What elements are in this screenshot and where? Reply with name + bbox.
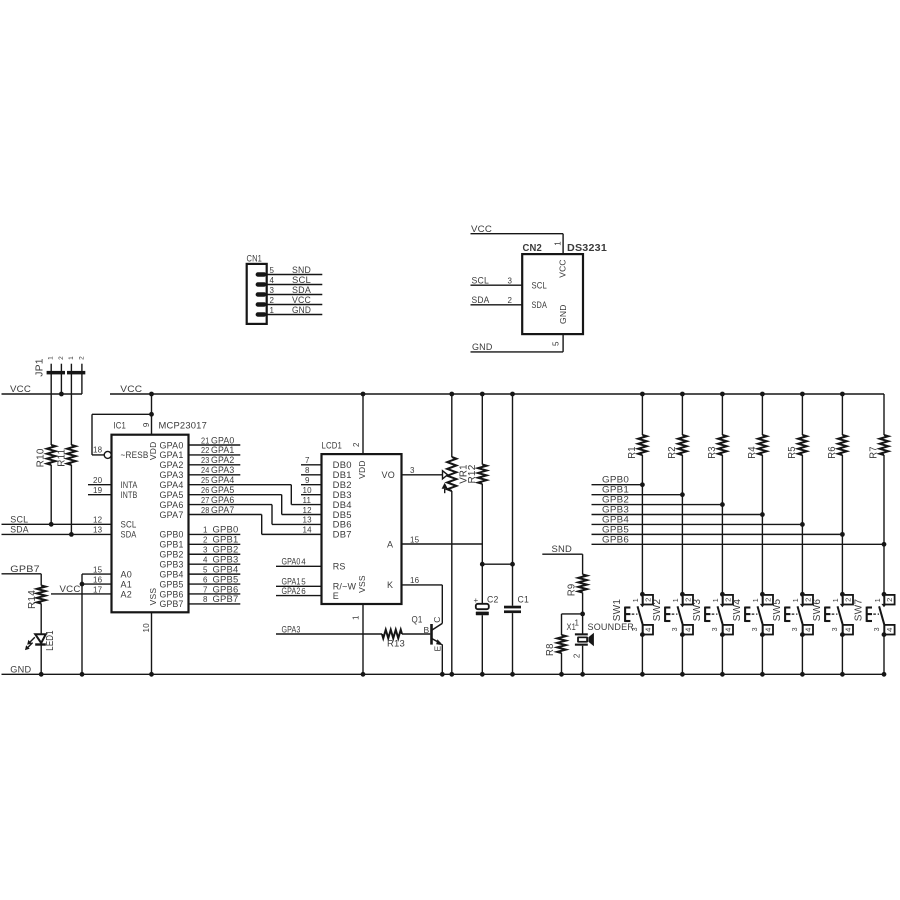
svg-text:23: 23 [201,456,210,465]
svg-text:24: 24 [201,466,210,475]
svg-text:15: 15 [410,535,420,544]
svg-text:2: 2 [352,442,361,447]
svg-text:VCC: VCC [471,224,492,235]
svg-text:2: 2 [885,598,894,602]
svg-text:2: 2 [78,356,85,360]
svg-text:A1: A1 [121,579,132,589]
svg-text:3: 3 [203,546,208,555]
svg-text:4: 4 [885,628,894,632]
svg-text:1: 1 [713,598,720,602]
svg-text:VDD: VDD [357,460,367,479]
svg-text:GPB7: GPB7 [160,599,184,609]
svg-text:6: 6 [301,587,306,596]
svg-text:GND: GND [472,342,493,353]
svg-text:1: 1 [673,598,680,602]
svg-text:VO: VO [382,470,395,480]
svg-text:3: 3 [672,627,679,631]
svg-text:C: C [432,616,442,622]
svg-text:4: 4 [763,628,772,632]
svg-text:R14: R14 [27,590,38,609]
svg-text:5: 5 [301,578,306,587]
svg-text:16: 16 [93,575,103,584]
svg-text:IC1: IC1 [114,421,127,432]
svg-text:1: 1 [352,615,361,620]
svg-text:C1: C1 [518,595,530,605]
svg-text:11: 11 [303,496,312,505]
svg-text:VCC: VCC [10,384,31,395]
svg-text:R9: R9 [566,583,577,596]
svg-text:GND: GND [292,305,311,316]
svg-text:8: 8 [305,466,310,475]
svg-text:VCC: VCC [60,584,81,595]
svg-text:SW3: SW3 [692,599,703,622]
svg-text:SDA: SDA [121,530,137,540]
svg-text:A2: A2 [121,589,132,599]
svg-text:2: 2 [843,598,852,602]
svg-text:VCC: VCC [120,384,142,395]
svg-text:RS: RS [333,562,346,572]
svg-text:R7: R7 [869,446,880,459]
svg-text:27: 27 [201,496,210,505]
svg-text:2: 2 [803,598,812,602]
svg-text:4: 4 [203,555,208,564]
svg-text:1: 1 [68,356,75,360]
svg-text:GPA0: GPA0 [282,557,301,568]
svg-text:GPB6: GPB6 [602,534,629,545]
svg-text:GPB7: GPB7 [10,564,40,575]
svg-text:C2: C2 [487,595,499,605]
svg-text:5: 5 [552,341,561,346]
svg-text:DB7: DB7 [333,530,352,540]
svg-text:2: 2 [508,296,513,305]
svg-text:15: 15 [93,565,103,574]
svg-text:INTB: INTB [121,490,138,500]
svg-text:R2: R2 [667,446,678,459]
svg-text:9: 9 [305,476,310,485]
svg-text:GND: GND [558,304,568,324]
svg-text:18: 18 [93,446,103,455]
svg-text:INTA: INTA [121,480,138,490]
svg-text:VDD: VDD [148,442,158,461]
svg-text:GPA3: GPA3 [282,624,301,635]
svg-text:3: 3 [792,627,799,631]
svg-text:GPB4: GPB4 [160,569,184,579]
svg-text:3: 3 [874,627,881,631]
svg-text:SCL: SCL [532,280,548,290]
svg-text:Q1: Q1 [412,614,423,624]
svg-text:DB2: DB2 [333,480,352,490]
svg-text:R6: R6 [827,446,838,459]
svg-text:10: 10 [142,623,151,633]
svg-text:DS3231: DS3231 [567,243,607,254]
svg-text:GPA3: GPA3 [160,470,184,480]
svg-text:VSS: VSS [148,588,158,606]
svg-text:GPA5: GPA5 [160,490,184,500]
svg-text:13: 13 [93,526,103,535]
svg-text:R5: R5 [787,446,798,459]
svg-text:CN2: CN2 [523,243,543,254]
svg-text:GPA6: GPA6 [160,500,184,510]
svg-text:LCD1: LCD1 [322,441,343,452]
svg-text:SOUNDER: SOUNDER [588,622,635,632]
svg-text:16: 16 [410,576,420,585]
svg-text:3: 3 [270,286,275,295]
svg-text:1: 1 [553,241,562,246]
svg-text:7: 7 [305,456,310,465]
svg-text:R13: R13 [387,638,405,648]
svg-text:DB5: DB5 [333,510,352,520]
svg-text:4: 4 [683,628,692,632]
svg-text:E: E [333,591,339,601]
svg-text:3: 3 [410,466,415,475]
svg-text:GPA1: GPA1 [160,450,184,460]
svg-text:A0: A0 [121,569,132,579]
svg-text:GPA0: GPA0 [160,440,184,450]
svg-text:1: 1 [833,598,840,602]
svg-text:1: 1 [203,526,208,535]
svg-text:5: 5 [203,565,208,574]
svg-text:14: 14 [303,526,313,535]
svg-text:GPA7: GPA7 [211,505,235,516]
svg-text:8: 8 [203,595,208,604]
svg-text:E: E [432,645,442,651]
svg-text:26: 26 [201,486,210,495]
svg-text:4: 4 [643,628,652,632]
svg-text:12: 12 [303,506,313,515]
svg-text:SW7: SW7 [854,599,865,622]
svg-text:GPA7: GPA7 [160,510,184,520]
svg-text:5: 5 [270,266,275,275]
svg-text:22: 22 [201,446,210,455]
svg-text:1: 1 [575,618,580,627]
svg-text:R1: R1 [627,446,638,459]
svg-text:SCL: SCL [121,520,137,530]
svg-text:SDA: SDA [10,524,29,535]
svg-text:SW2: SW2 [652,599,663,622]
svg-text:1: 1 [875,598,882,602]
svg-text:13: 13 [303,516,313,525]
svg-text:19: 19 [93,486,103,495]
svg-text:2: 2 [573,653,582,658]
svg-text:GPA2: GPA2 [282,586,301,597]
svg-text:3: 3 [712,627,719,631]
svg-text:4: 4 [723,628,732,632]
svg-text:6: 6 [203,575,208,584]
svg-text:4: 4 [301,558,306,567]
svg-text:GPA4: GPA4 [160,480,184,490]
svg-text:SCL: SCL [472,275,490,286]
svg-text:2: 2 [683,598,692,602]
svg-text:DB0: DB0 [333,460,352,470]
svg-text:2: 2 [270,296,275,305]
svg-text:R12: R12 [467,464,478,483]
svg-text:4: 4 [843,628,852,632]
svg-text:10: 10 [303,486,313,495]
svg-text:4: 4 [803,628,812,632]
svg-text:12: 12 [93,516,103,525]
svg-text:20: 20 [93,476,103,485]
svg-text:2: 2 [643,598,652,602]
svg-text:GPB1: GPB1 [160,540,184,550]
svg-text:LED1: LED1 [45,630,56,651]
svg-text:DB1: DB1 [333,470,352,480]
svg-text:R10: R10 [36,448,47,467]
svg-text:SDA: SDA [472,295,490,306]
svg-text:CN1: CN1 [247,253,263,264]
svg-text:SW6: SW6 [812,599,823,622]
svg-text:3: 3 [508,276,513,285]
svg-text:21: 21 [201,436,210,445]
svg-text:+: + [474,596,479,605]
svg-text:R11: R11 [56,449,67,467]
svg-text:2: 2 [723,598,732,602]
svg-text:K: K [387,580,393,590]
svg-text:B: B [424,625,430,635]
svg-text:A: A [387,539,393,549]
svg-text:1: 1 [633,598,640,602]
svg-text:GPB0: GPB0 [160,530,184,540]
svg-text:3: 3 [752,627,759,631]
svg-text:R3: R3 [707,446,718,459]
svg-text:SW5: SW5 [772,599,783,622]
svg-text:SW4: SW4 [732,599,743,622]
svg-text:3: 3 [832,627,839,631]
svg-text:DB3: DB3 [333,490,352,500]
svg-text:GPB6: GPB6 [160,589,184,599]
svg-text:GND: GND [10,664,31,675]
svg-text:MCP23017: MCP23017 [159,421,208,432]
svg-text:17: 17 [93,585,103,594]
svg-text:1: 1 [48,356,55,360]
svg-text:SND: SND [552,544,573,555]
svg-text:4: 4 [270,276,275,285]
svg-text:SDA: SDA [532,300,548,310]
svg-text:GPB5: GPB5 [160,579,184,589]
svg-text:1: 1 [793,598,800,602]
svg-text:VSS: VSS [357,575,367,593]
svg-text:7: 7 [203,585,208,594]
svg-text:GPB7: GPB7 [213,594,239,605]
svg-text:DB4: DB4 [333,500,352,510]
svg-text:GPB2: GPB2 [160,550,184,560]
svg-text:R8: R8 [545,643,556,656]
svg-text:GPA2: GPA2 [160,460,184,470]
svg-text:R4: R4 [747,446,758,459]
svg-text:1: 1 [753,598,760,602]
svg-text:GPB3: GPB3 [160,559,184,569]
svg-text:3: 3 [632,627,639,631]
svg-text:2: 2 [58,356,65,360]
svg-text:SW1: SW1 [612,599,623,622]
svg-text:2: 2 [203,536,208,545]
svg-text:VCC: VCC [557,259,567,278]
svg-text:28: 28 [201,506,210,515]
svg-text:9: 9 [142,422,151,427]
svg-text:1: 1 [270,306,275,315]
svg-text:~RESB: ~RESB [121,450,149,460]
svg-text:25: 25 [201,476,210,485]
svg-text:2: 2 [763,598,772,602]
svg-text:JP1: JP1 [35,358,46,377]
svg-text:DB6: DB6 [333,520,352,530]
